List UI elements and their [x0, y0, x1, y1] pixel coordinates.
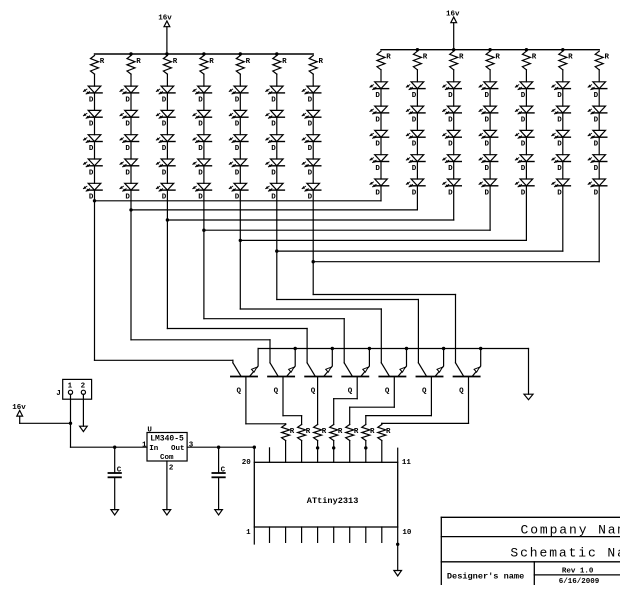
- ground pin 10: [394, 571, 402, 576]
- svg-text:D: D: [271, 169, 276, 177]
- LED D2: [83, 110, 102, 134]
- LED D48: [443, 130, 462, 154]
- svg-text:D: D: [485, 189, 490, 197]
- svg-text:D: D: [308, 169, 313, 177]
- svg-text:11: 11: [402, 459, 412, 467]
- LED D16: [193, 86, 212, 110]
- wire row bus 3: [167, 219, 453, 221]
- svg-text:D: D: [485, 165, 490, 173]
- svg-text:D: D: [235, 169, 240, 177]
- ground U1: [163, 510, 171, 515]
- title schematic name: [510, 546, 620, 561]
- svg-text:D: D: [89, 96, 94, 104]
- svg-text:D: D: [198, 145, 203, 153]
- LED D11: [156, 86, 175, 110]
- LED D52: [479, 106, 498, 130]
- transistor Q7: [454, 295, 481, 424]
- svg-text:D: D: [521, 141, 526, 149]
- transistor Q3: [305, 329, 332, 425]
- LED D56: [515, 82, 534, 106]
- resistor R14: [595, 51, 609, 82]
- wire column L7 to Q7: [313, 294, 455, 296]
- svg-text:Q: Q: [274, 388, 279, 396]
- LED D38: [370, 130, 389, 154]
- wire column R5 down: [525, 186, 527, 241]
- LED D30: [266, 183, 285, 201]
- wire J1.2 to ground: [82, 394, 84, 426]
- LED D28: [266, 135, 285, 159]
- supply 16v right arrow: [446, 11, 460, 52]
- title block frame: [441, 517, 620, 585]
- LED D61: [552, 82, 571, 106]
- svg-text:C: C: [221, 467, 226, 475]
- LED D70: [588, 179, 607, 197]
- title designer: [447, 571, 524, 581]
- LED D6: [120, 86, 139, 110]
- svg-text:D: D: [198, 121, 203, 129]
- svg-text:D: D: [557, 189, 562, 197]
- wire column L3 to Q3: [167, 328, 307, 330]
- supply 16v left arrow: [158, 15, 172, 56]
- svg-text:C: C: [117, 467, 122, 475]
- wire Q4 base to R18: [334, 399, 358, 425]
- LED D3: [83, 135, 102, 159]
- svg-text:D: D: [125, 121, 130, 129]
- svg-text:D: D: [125, 96, 130, 104]
- LED D37: [370, 106, 389, 130]
- LED D36: [370, 82, 389, 106]
- wire column L3 down: [166, 190, 169, 328]
- LED D66: [588, 82, 607, 106]
- LED D27: [266, 110, 285, 134]
- wire Q1 base to R15: [246, 423, 286, 426]
- svg-text:R: R: [423, 54, 428, 62]
- LED D69: [588, 155, 607, 179]
- svg-text:D: D: [162, 169, 167, 177]
- LED D68: [588, 130, 607, 154]
- svg-text:D: D: [162, 145, 167, 153]
- title rev: [562, 567, 594, 575]
- svg-text:D: D: [235, 121, 240, 129]
- LED D57: [515, 106, 534, 130]
- svg-text:D: D: [271, 121, 276, 129]
- resistor R5: [236, 56, 250, 87]
- svg-text:D: D: [448, 189, 453, 197]
- LED D34: [302, 159, 321, 183]
- LED D41: [406, 82, 425, 106]
- resistor R17: [314, 425, 327, 463]
- wire column L2 down: [129, 190, 132, 340]
- svg-text:R: R: [246, 58, 251, 66]
- svg-text:D: D: [375, 116, 380, 124]
- svg-text:J: J: [56, 390, 61, 398]
- capacitor C1: [109, 447, 122, 509]
- transistor Q5: [379, 309, 406, 407]
- wire column L1 down: [93, 190, 96, 360]
- svg-text:U: U: [147, 427, 152, 435]
- resistor R7: [309, 56, 323, 87]
- LED D20: [193, 183, 212, 201]
- svg-text:16v: 16v: [158, 15, 172, 23]
- svg-text:D: D: [125, 194, 130, 202]
- wire Q7 base to R21: [382, 423, 469, 424]
- svg-text:R: R: [173, 58, 178, 66]
- svg-text:D: D: [521, 116, 526, 124]
- wire row bus 2: [131, 209, 417, 211]
- svg-text:D: D: [308, 96, 313, 104]
- wire column L6 to Q6: [277, 299, 419, 301]
- svg-text:R: R: [290, 428, 295, 436]
- svg-text:D: D: [412, 141, 417, 149]
- LED D65: [552, 179, 571, 197]
- transistor Q4: [342, 319, 369, 399]
- svg-text:6/16/2009: 6/16/2009: [559, 578, 600, 585]
- svg-text:R: R: [568, 54, 573, 62]
- svg-text:D: D: [448, 141, 453, 149]
- resistor R4: [200, 56, 214, 87]
- LED D43: [406, 130, 425, 154]
- LED D23: [229, 135, 248, 159]
- svg-text:16v: 16v: [12, 404, 26, 412]
- regulator U1 LM340-5: [142, 427, 194, 473]
- svg-text:D: D: [594, 116, 599, 124]
- title date: [559, 578, 600, 586]
- LED D59: [515, 155, 534, 179]
- LED D51: [479, 82, 498, 106]
- svg-text:D: D: [375, 165, 380, 173]
- svg-text:LM340-5: LM340-5: [150, 435, 184, 444]
- resistor R3: [163, 56, 177, 87]
- wire column R3 down: [453, 186, 455, 220]
- wire Q2 base to R16: [283, 416, 302, 425]
- svg-text:D: D: [198, 194, 203, 202]
- svg-text:3: 3: [189, 441, 194, 449]
- wire row bus 7: [313, 261, 599, 263]
- wire Q6 base to R20: [366, 416, 432, 425]
- svg-text:R: R: [386, 428, 391, 436]
- LED D64: [552, 155, 571, 179]
- LED D33: [302, 135, 321, 159]
- supply 16v bottom left: [12, 404, 70, 423]
- svg-text:R: R: [386, 54, 391, 62]
- svg-text:D: D: [198, 169, 203, 177]
- wire row bus 5: [240, 239, 526, 241]
- svg-text:D: D: [308, 145, 313, 153]
- svg-text:D: D: [162, 121, 167, 129]
- svg-text:Schematic Name: Schematic Name: [510, 546, 620, 561]
- resistor R18: [330, 425, 343, 463]
- svg-text:D: D: [557, 165, 562, 173]
- svg-text:D: D: [448, 165, 453, 173]
- wire right 16v rail: [381, 48, 599, 51]
- svg-text:D: D: [448, 92, 453, 100]
- wire column L7 down: [312, 190, 315, 294]
- resistor R16: [298, 425, 311, 463]
- wire column L1 to Q1: [95, 359, 233, 361]
- resistor R8: [377, 51, 391, 82]
- resistor R13: [559, 51, 573, 82]
- LED D32: [302, 110, 321, 134]
- svg-text:D: D: [89, 121, 94, 129]
- resistor R11: [486, 51, 500, 82]
- ground C2: [215, 510, 223, 515]
- LED D42: [406, 106, 425, 130]
- svg-text:D: D: [485, 92, 490, 100]
- svg-text:D: D: [412, 92, 417, 100]
- wire row bus 1: [95, 200, 382, 202]
- svg-text:R: R: [282, 58, 287, 66]
- svg-text:D: D: [521, 165, 526, 173]
- resistor R12: [522, 51, 536, 82]
- svg-text:D: D: [125, 169, 130, 177]
- svg-text:In: In: [149, 445, 159, 453]
- svg-text:D: D: [594, 141, 599, 149]
- svg-text:Designer's name: Designer's name: [447, 571, 524, 581]
- svg-text:D: D: [521, 189, 526, 197]
- svg-text:D: D: [375, 92, 380, 100]
- svg-text:D: D: [162, 96, 167, 104]
- svg-text:D: D: [125, 145, 130, 153]
- svg-text:Q: Q: [385, 388, 390, 396]
- wire U1 Out to pin20 5V: [187, 446, 256, 449]
- wire column R7 down: [598, 186, 600, 262]
- svg-text:D: D: [412, 165, 417, 173]
- svg-text:D: D: [594, 165, 599, 173]
- wire column L5 to Q5: [240, 308, 381, 310]
- LED D44: [406, 155, 425, 179]
- svg-text:R: R: [338, 428, 343, 436]
- svg-text:R: R: [100, 58, 105, 66]
- wire Q5 base to R19: [350, 407, 395, 424]
- svg-text:Q: Q: [237, 388, 242, 396]
- svg-text:D: D: [235, 145, 240, 153]
- LED D40: [370, 179, 389, 197]
- svg-text:D: D: [271, 96, 276, 104]
- svg-text:Q: Q: [348, 388, 353, 396]
- resistor R10: [450, 51, 464, 82]
- wire column R6 down: [562, 186, 564, 251]
- wire column L4 to Q4: [204, 318, 344, 320]
- LED D45: [406, 179, 425, 197]
- svg-text:D: D: [308, 121, 313, 129]
- LED D47: [443, 106, 462, 130]
- wire row bus 6: [277, 250, 563, 252]
- LED D35: [302, 183, 321, 201]
- pin stubs bottom: [270, 527, 382, 542]
- LED D25: [229, 183, 248, 201]
- svg-text:R: R: [495, 54, 500, 62]
- LED D53: [479, 130, 498, 154]
- LED D58: [515, 130, 534, 154]
- wire U1 Com to ground: [166, 461, 168, 510]
- svg-text:R: R: [354, 428, 359, 436]
- svg-text:R: R: [319, 58, 324, 66]
- svg-text:R: R: [605, 54, 610, 62]
- ground J1.2: [80, 426, 88, 431]
- wire column L5 down: [239, 190, 242, 309]
- svg-text:2: 2: [81, 382, 86, 390]
- svg-text:D: D: [412, 189, 417, 197]
- LED D67: [588, 106, 607, 130]
- svg-text:D: D: [271, 145, 276, 153]
- ground C1: [111, 510, 119, 515]
- wire column L6 down: [275, 190, 278, 299]
- svg-text:Q: Q: [422, 388, 427, 396]
- resistor R21: [378, 425, 391, 463]
- svg-text:Q: Q: [459, 388, 464, 396]
- LED D63: [552, 130, 571, 154]
- capacitor C2: [212, 447, 225, 509]
- LED D18: [193, 135, 212, 159]
- LED D55: [479, 179, 498, 197]
- svg-text:Q: Q: [311, 388, 316, 396]
- svg-text:D: D: [235, 194, 240, 202]
- svg-text:D: D: [557, 141, 562, 149]
- wire column R1 down: [380, 186, 382, 201]
- svg-text:1: 1: [142, 441, 147, 449]
- svg-text:D: D: [375, 141, 380, 149]
- svg-text:Rev 1.0: Rev 1.0: [562, 567, 594, 575]
- LED D4: [83, 159, 102, 183]
- wire J1.1 to regulator In: [69, 394, 147, 449]
- LED D5: [83, 183, 102, 201]
- svg-text:D: D: [308, 194, 313, 202]
- resistor R6: [273, 56, 287, 87]
- LED D60: [515, 179, 534, 197]
- LED D12: [156, 110, 175, 134]
- LED D49: [443, 155, 462, 179]
- LED D46: [443, 82, 462, 106]
- svg-text:D: D: [594, 189, 599, 197]
- svg-text:ATtiny2313: ATtiny2313: [307, 496, 359, 506]
- pin stub NC top: [269, 448, 271, 462]
- wire row bus 4: [204, 229, 490, 231]
- pin 1: [246, 527, 254, 544]
- LED D31: [302, 86, 321, 110]
- LED D10: [120, 183, 139, 201]
- connector J1: [56, 379, 91, 399]
- svg-text:D: D: [375, 189, 380, 197]
- wire column L4 down: [202, 190, 205, 319]
- svg-text:R: R: [370, 428, 375, 436]
- svg-text:Out: Out: [171, 445, 185, 453]
- svg-text:D: D: [89, 145, 94, 153]
- svg-text:D: D: [162, 194, 167, 202]
- svg-text:D: D: [271, 194, 276, 202]
- resistor R15: [282, 425, 295, 463]
- resistor R19: [346, 425, 359, 463]
- transistor Q2: [268, 340, 295, 416]
- title company name: [521, 523, 620, 538]
- svg-text:1: 1: [68, 382, 73, 390]
- pin 10 to ground: [396, 527, 412, 571]
- pin 20: [242, 447, 255, 467]
- LED D22: [229, 110, 248, 134]
- svg-text:D: D: [557, 92, 562, 100]
- svg-text:D: D: [198, 96, 203, 104]
- LED D29: [266, 159, 285, 183]
- svg-text:R: R: [136, 58, 141, 66]
- LED D54: [479, 155, 498, 179]
- resistor R9: [413, 51, 427, 82]
- pin 11: [398, 448, 412, 467]
- wire emitter rail to ground: [258, 347, 528, 394]
- LED D24: [229, 159, 248, 183]
- LED D13: [156, 135, 175, 159]
- svg-text:R: R: [209, 58, 214, 66]
- svg-text:R: R: [532, 54, 537, 62]
- svg-text:2: 2: [169, 465, 174, 473]
- svg-text:D: D: [235, 96, 240, 104]
- LED D26: [266, 86, 285, 110]
- svg-text:Company Name: Company Name: [521, 523, 620, 538]
- ground emitter rail: [524, 394, 533, 400]
- LED D21: [229, 86, 248, 110]
- wire column R2 down: [416, 186, 418, 210]
- transistor Q6: [416, 300, 443, 416]
- wire column L2 to Q2: [131, 339, 270, 341]
- svg-text:D: D: [412, 116, 417, 124]
- svg-text:R: R: [306, 428, 311, 436]
- LED D17: [193, 110, 212, 134]
- LED D19: [193, 159, 212, 183]
- LED D9: [120, 159, 139, 183]
- svg-text:D: D: [557, 116, 562, 124]
- svg-text:D: D: [448, 116, 453, 124]
- wire left 16v rail: [95, 52, 314, 55]
- svg-text:10: 10: [402, 529, 412, 537]
- svg-text:1: 1: [246, 529, 251, 537]
- LED D62: [552, 106, 571, 130]
- IC U2 ATtiny2313: [254, 462, 397, 527]
- resistor R1: [91, 56, 105, 87]
- resistor R2: [127, 56, 141, 87]
- svg-text:R: R: [322, 428, 327, 436]
- LED D14: [156, 159, 175, 183]
- svg-text:R: R: [459, 54, 464, 62]
- LED D50: [443, 179, 462, 197]
- LED D7: [120, 110, 139, 134]
- LED D39: [370, 155, 389, 179]
- svg-text:D: D: [89, 169, 94, 177]
- wire column R4 down: [489, 186, 491, 230]
- resistor R20: [362, 425, 375, 463]
- LED D15: [156, 183, 175, 201]
- svg-text:20: 20: [242, 459, 252, 467]
- LED D1: [83, 86, 102, 110]
- LED D8: [120, 135, 139, 159]
- svg-text:D: D: [485, 116, 490, 124]
- transistor Q1: [231, 349, 258, 424]
- svg-text:D: D: [521, 92, 526, 100]
- svg-text:D: D: [485, 141, 490, 149]
- svg-text:D: D: [594, 92, 599, 100]
